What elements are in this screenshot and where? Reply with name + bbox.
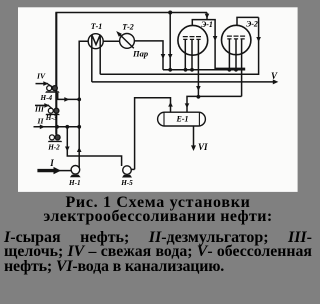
svg-text:Т-1: Т-1 (91, 22, 103, 31)
wire: T-1 left pipe + riser from H-1 (79, 41, 88, 167)
wire: IV jog into pump H-4 (48, 84, 53, 87)
wire: III jog into pump H-3 (49, 106, 53, 109)
wire: E-1 return line to H-5 riser (135, 98, 171, 170)
wire: T-1 to T-2 pipe (103, 40, 120, 42)
svg-text:VI: VI (198, 142, 208, 152)
arrow: H-4 discharge right (64, 97, 69, 102)
Э-1 electrode dashes (183, 37, 201, 40)
wire: Э-2 electrode hanger 1 (228, 39, 230, 70)
I inlet thick arrow (37, 169, 55, 172)
svg-text:Н-5: Н-5 (120, 179, 133, 187)
wire: drop to H-5 feed line (67, 127, 121, 166)
wire: Э-2 top bracket (237, 17, 259, 25)
wire: E-1 bottom outlet to VI (193, 126, 195, 147)
wire: Э-1 electrode hanger 2 (191, 40, 193, 70)
wire: drop from top line into Э-1 bracket (206, 13, 208, 20)
caption line 2 (0, 209, 316, 225)
node: II line junctions (55, 125, 59, 129)
arrow: top feed down into Э-1 bracket (205, 14, 210, 19)
arrow: II inlet right (40, 125, 45, 130)
svg-text:V: V (271, 71, 278, 81)
svg-text:Е-1: Е-1 (176, 115, 189, 124)
arrow: IV inlet right (43, 81, 48, 86)
electrodehydrator Э-2 (222, 25, 251, 54)
wire: top horizontal line (55, 12, 207, 14)
arrow: H-5 feed line down (65, 147, 70, 152)
wire: main crude vertical line x=56 (55, 13, 57, 135)
node: top line / feed stub (168, 11, 172, 15)
arrow: III inlet right (44, 103, 49, 108)
scanned figure white background (18, 7, 298, 192)
svg-text:IV: IV (36, 72, 46, 81)
arrow: Э-1 bracket right leg down (213, 36, 218, 41)
svg-text:Н-4: Н-4 (40, 94, 53, 102)
wire: E-1 collect line with inlet stub (187, 96, 242, 112)
caption line 4 (4, 244, 312, 260)
wire: III inlet arrow line (35, 104, 49, 106)
svg-text:Н-1: Н-1 (68, 179, 81, 187)
steam heater T-2 (120, 34, 135, 49)
T-1 "M" mark (92, 35, 100, 48)
wire: H-4 discharge to riser (58, 93, 79, 100)
electrodehydrator Э-1 (178, 25, 208, 55)
wire: Э-2 electrode hanger 3 down to E-1 line (241, 39, 243, 97)
wire: Э-1 top bracket (192, 20, 245, 69)
wire: I inlet thin pipe to H-1 (59, 170, 72, 172)
Э-2 electrode dashes (227, 36, 245, 39)
caption line 1 (0, 195, 316, 211)
node: riser/H-4 discharge (77, 98, 81, 102)
wire: H-5 discharge elbow into circle (131, 168, 134, 170)
wire: feed stub from top line to header (169, 13, 171, 70)
wire: T-1 lower-left pipe to V line (91, 48, 93, 82)
svg-text:Э-1: Э-1 (201, 20, 213, 29)
svg-text:I: I (49, 158, 54, 168)
vessel E-1 (158, 112, 206, 126)
wire: Э-1 electrode hanger 3 down to E-1 junction (197, 40, 199, 98)
node: E-1 collect junction (197, 95, 201, 99)
node: header junctions (168, 68, 172, 72)
pump H-1 (70, 166, 81, 178)
caption line 5 (4, 259, 316, 275)
pump H-2 (48, 135, 62, 142)
arrow: T-2 drop down (161, 54, 166, 59)
svg-text:Т-2: Т-2 (122, 23, 134, 32)
wire: Э-2 electrode hanger 2 (235, 39, 237, 70)
wire: W line from T-1 to Э-2 bracket riser (100, 17, 258, 74)
wire: V product line (92, 81, 274, 83)
wire: II inlet line to riser (34, 126, 80, 128)
pump H-4 (45, 86, 59, 93)
wire: water header under vessels (163, 69, 245, 71)
pump H-5 (122, 166, 132, 178)
junction dots (55, 11, 238, 129)
svg-text:Пар: Пар (132, 49, 148, 59)
svg-text:II: II (37, 117, 45, 126)
svg-text:III: III (34, 104, 45, 113)
arrow: Э-1 downcomer to E-1 (196, 86, 201, 91)
svg-text:Э-2: Э-2 (246, 19, 258, 28)
pump H-3 (45, 108, 59, 115)
svg-text:Н-2: Н-2 (47, 144, 60, 152)
T-2 diagonal arrow (120, 34, 134, 48)
heat exchanger T-1 (88, 34, 103, 49)
svg-text:Н-3: Н-3 (45, 114, 58, 122)
arrow: E-1 inlet stub down (185, 103, 190, 108)
wire: Э-1 electrode hanger 1 (184, 40, 186, 70)
caption line 3 (4, 230, 312, 246)
wire: T-1 lower-right pipe to W line (99, 48, 101, 75)
wire: T-2 right pipe and drop to header (134, 41, 163, 70)
arrow: feed stub down (168, 54, 173, 59)
arrow: E-1 outlet stub up (168, 102, 173, 107)
arrow: Э-2 riser down (256, 37, 261, 42)
arrow: H-1 riser up (77, 147, 82, 152)
wire: IV inlet arrow line (36, 83, 49, 85)
